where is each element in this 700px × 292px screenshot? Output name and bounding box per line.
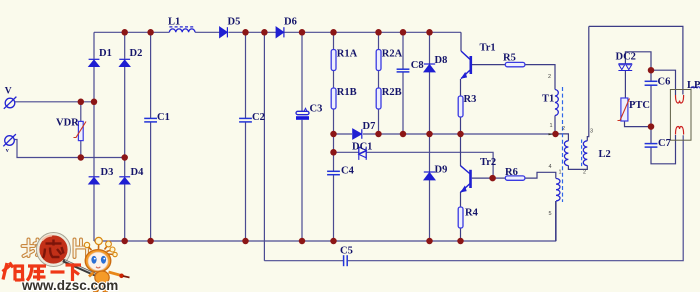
wire mid bus left of D7 bbox=[334, 133, 353, 135]
svg-text:4: 4 bbox=[549, 164, 552, 170]
lamp LP tube bbox=[670, 90, 691, 141]
svg-text:3: 3 bbox=[590, 129, 593, 135]
svg-text:L2: L2 bbox=[599, 149, 611, 160]
diode D2 bbox=[119, 59, 130, 66]
diac DC1 bbox=[359, 147, 366, 160]
svg-text:C7: C7 bbox=[658, 138, 671, 149]
svg-text:D5: D5 bbox=[228, 17, 241, 28]
wire R3 to mid bus bbox=[460, 117, 462, 134]
terminal V bottom bbox=[3, 134, 16, 146]
svg-text:R6: R6 bbox=[505, 167, 518, 178]
svg-text:www.dzsc.com: www.dzsc.com bbox=[21, 278, 118, 292]
pin 1 polarity arrow at T1 bbox=[549, 133, 554, 135]
svg-text:D7: D7 bbox=[363, 121, 376, 132]
wire PTC to node2 bbox=[625, 121, 652, 127]
wire bottom bus bbox=[94, 201, 556, 241]
wire C8 to mid bus bbox=[402, 72, 404, 134]
lamp LP top filament bbox=[676, 95, 684, 103]
inductor L2 core bbox=[581, 140, 583, 168]
wire C2 branch lower bbox=[245, 122, 247, 241]
svg-text:R1B: R1B bbox=[337, 87, 357, 98]
resistor R1B bbox=[331, 88, 336, 109]
wire Tr1 emitter to R3 bbox=[460, 79, 462, 96]
svg-text:D4: D4 bbox=[131, 167, 145, 178]
wire bridge left leg mid bbox=[93, 67, 95, 177]
diode D8 bbox=[424, 64, 435, 72]
svg-text:Tr1: Tr1 bbox=[480, 43, 496, 54]
diode D7 bbox=[353, 129, 362, 139]
watermark group dzsc.com bbox=[3, 233, 130, 292]
wire charge-pump branch to C5 return bbox=[263, 32, 265, 260]
wire Tr2 base node to R6 bbox=[493, 177, 506, 179]
wire top bus L1 to D5 bbox=[195, 31, 220, 33]
wire Tr2 collector bbox=[460, 134, 462, 166]
svg-text:R2A: R2A bbox=[382, 49, 403, 60]
resistor R4 bbox=[458, 207, 463, 228]
svg-text:C4: C4 bbox=[341, 166, 355, 177]
wire VDR top stub bbox=[80, 102, 82, 122]
svg-text:T1: T1 bbox=[542, 94, 554, 105]
wire top bus D5 to D6 bbox=[228, 31, 276, 33]
svg-text:V: V bbox=[5, 87, 12, 97]
svg-text:R5: R5 bbox=[503, 53, 516, 64]
wire R6 to T1 w3 bbox=[525, 172, 556, 178]
wire Tr1 collector bbox=[460, 32, 462, 51]
wire DC1 rail bbox=[334, 151, 360, 153]
capacitor C1 bbox=[144, 118, 157, 122]
diode D4 bbox=[119, 177, 130, 184]
wire top bus left bbox=[94, 31, 169, 33]
wire mid bus D7 to T1 bbox=[363, 133, 556, 135]
transistor Tr1 bbox=[461, 51, 471, 79]
svg-text:2: 2 bbox=[548, 74, 551, 80]
wire C7 to lamp bottom-left pin bbox=[651, 135, 676, 164]
thermistor PTC bbox=[618, 98, 630, 121]
watermark char 片 (white with orange outline) bbox=[75, 240, 89, 259]
watermark mascot pen bbox=[63, 261, 106, 280]
wire return rail right bbox=[348, 135, 683, 261]
wire T1 w1 to mid node bbox=[554, 116, 556, 135]
svg-text:C3: C3 bbox=[310, 103, 323, 114]
wire bridge left leg upper bbox=[93, 32, 95, 59]
wire DC2 branch top jog bbox=[625, 52, 651, 70]
resistor R5 bbox=[505, 62, 525, 66]
svg-text:D8: D8 bbox=[435, 55, 448, 66]
inductor L1 bbox=[169, 27, 195, 32]
wire D8 to mid bus bbox=[429, 72, 431, 134]
transformer T1 winding W3 bbox=[556, 179, 560, 201]
svg-text:R1A: R1A bbox=[337, 49, 358, 60]
wire w3 bottom stub bbox=[555, 201, 557, 241]
wire R1 chain top stub bbox=[333, 32, 335, 49]
diode D9 bbox=[424, 172, 435, 180]
wire node2 to C7 bbox=[650, 127, 652, 144]
varistor VDR bbox=[74, 121, 87, 140]
wire C6 to node2 bbox=[650, 85, 652, 126]
watermark magnifier circle with 芯 bbox=[37, 233, 71, 267]
wire R2A-R2B link bbox=[378, 71, 380, 89]
wire DC1 to Tr2 base bbox=[366, 152, 493, 178]
wire terminal V to bridge bbox=[15, 101, 95, 103]
wire top bus D6 to Tr1 collector corner bbox=[284, 31, 461, 33]
capacitor C4 bbox=[327, 171, 340, 174]
wire R1B to mid node bbox=[333, 109, 335, 152]
wire D9 to bottom bus bbox=[429, 180, 431, 241]
wire VDR bottom stub bbox=[80, 141, 82, 158]
wire C1 branch lower bbox=[150, 122, 152, 241]
resistor R2A bbox=[376, 50, 381, 71]
terminal V top bbox=[4, 97, 17, 109]
wire mid node to T1 w2 bbox=[556, 134, 569, 141]
wire R4 to bottom bus bbox=[460, 228, 462, 241]
svg-text:C8: C8 bbox=[411, 60, 424, 71]
transformer T1 core bbox=[562, 87, 564, 202]
resistor R1A bbox=[331, 50, 336, 71]
transformer T1 winding W1 bbox=[555, 90, 558, 116]
svg-text:D2: D2 bbox=[130, 48, 143, 59]
svg-text:D3: D3 bbox=[101, 167, 114, 178]
diode D3 bbox=[89, 177, 100, 184]
svg-text:5: 5 bbox=[549, 211, 552, 217]
wire w2 bottom to L2 bottom bbox=[568, 166, 587, 170]
resistor R6 bbox=[505, 176, 525, 180]
svg-text:C5: C5 bbox=[340, 246, 353, 257]
wire L2 top to loop bbox=[587, 26, 589, 140]
wire return rail left bbox=[264, 260, 343, 262]
wire R2 chain top stub bbox=[378, 32, 380, 49]
pin numbers bbox=[548, 74, 593, 217]
svg-text:D9: D9 bbox=[435, 165, 448, 176]
transformer T1 winding W2 bbox=[564, 141, 568, 166]
wire C2 branch upper bbox=[245, 32, 247, 118]
watermark mascot bbox=[84, 237, 129, 292]
wire C1 branch upper bbox=[150, 32, 152, 118]
svg-text:L1: L1 bbox=[168, 17, 180, 28]
svg-text:D1: D1 bbox=[99, 48, 112, 59]
diode D1 bbox=[89, 59, 100, 66]
diac DC2 bbox=[618, 64, 632, 71]
resistor R3 bbox=[458, 96, 463, 117]
wire C4 to bottom bus bbox=[333, 175, 335, 241]
svg-text:LP: LP bbox=[687, 80, 700, 91]
wire Tr2 emitter to R4 bbox=[460, 192, 462, 207]
watermark text 维库一下 (red strokes) bbox=[3, 263, 82, 282]
wire terminal 2 jog bbox=[15, 140, 125, 158]
wire mid bus to D9 bbox=[429, 134, 431, 172]
svg-text:PTC: PTC bbox=[629, 100, 650, 111]
svg-text:VDR: VDR bbox=[56, 118, 79, 129]
svg-text:2: 2 bbox=[583, 170, 586, 176]
wire bridge right leg mid bbox=[124, 67, 126, 177]
capacitor C8 bbox=[397, 69, 410, 72]
svg-text:R4: R4 bbox=[465, 208, 479, 219]
resistor R2B bbox=[376, 88, 381, 109]
svg-text:DC1: DC1 bbox=[352, 141, 372, 152]
svg-text:C2: C2 bbox=[252, 112, 265, 123]
diode D6 bbox=[276, 27, 284, 37]
transistor Tr2 bbox=[461, 166, 471, 193]
inductor L2 winding bbox=[583, 141, 587, 166]
svg-text:v: v bbox=[6, 148, 9, 154]
wire top loop to lamp bbox=[589, 26, 683, 94]
svg-text:R2B: R2B bbox=[382, 87, 402, 98]
wire C6 top stub bbox=[650, 70, 652, 81]
svg-text:1: 1 bbox=[559, 170, 562, 176]
wire D8 top stub bbox=[429, 32, 431, 63]
svg-text:R3: R3 bbox=[464, 94, 477, 105]
wire bridge right leg lower bbox=[124, 184, 126, 241]
wire Tr2 base wire bbox=[472, 177, 493, 179]
svg-text:1: 1 bbox=[550, 123, 553, 129]
svg-text:C6: C6 bbox=[658, 77, 671, 88]
wire DC1 node to C4 bbox=[333, 152, 335, 171]
wire C3 branch upper bbox=[301, 32, 303, 111]
svg-text:DC2: DC2 bbox=[616, 52, 636, 63]
wire R2B to mid bus bbox=[378, 109, 380, 134]
wire C8 top stub bbox=[402, 32, 404, 69]
junction nodes bbox=[78, 29, 655, 244]
wire R1A-R1B link bbox=[333, 71, 335, 89]
svg-text:D6: D6 bbox=[284, 17, 297, 28]
capacitor C6 bbox=[645, 81, 658, 85]
watermark char 找 (white with orange outline) bbox=[23, 240, 44, 257]
diode D5 bbox=[220, 27, 228, 37]
wire bridge right leg upper bbox=[124, 32, 126, 59]
svg-text:Tr2: Tr2 bbox=[480, 157, 496, 168]
svg-text:C1: C1 bbox=[157, 112, 170, 123]
capacitor C2 bbox=[239, 118, 252, 122]
svg-text:2: 2 bbox=[562, 126, 565, 132]
wire node1 to lamp top-left pin bbox=[651, 70, 676, 95]
wire Tr1 base to R5 bbox=[472, 64, 505, 66]
lamp LP bottom filament bbox=[676, 126, 684, 134]
capacitor C3 (polarized) bbox=[296, 108, 309, 119]
capacitor C5 bbox=[344, 255, 348, 266]
wire C3 branch lower bbox=[301, 120, 303, 241]
wire DC2 to PTC bbox=[624, 71, 626, 98]
wire bridge left leg lower bbox=[93, 184, 95, 241]
lamp LP pin stub squiggle bbox=[691, 87, 700, 89]
capacitor C7 bbox=[645, 144, 658, 148]
wire R5 to T1 pin2 bbox=[525, 65, 555, 90]
